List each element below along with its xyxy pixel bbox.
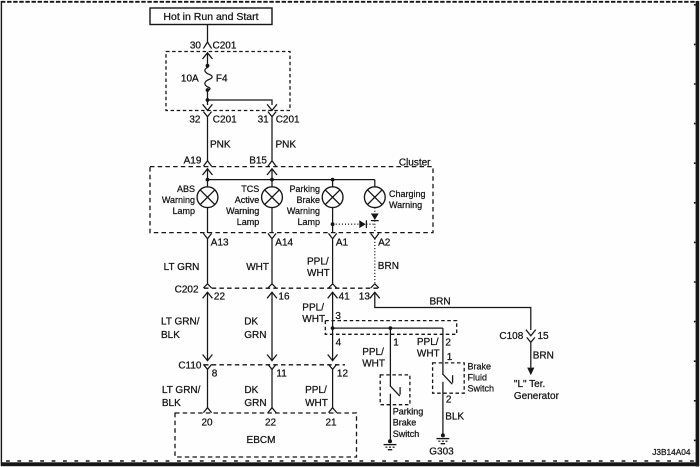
ground G303 xyxy=(429,433,454,457)
svg-text:Brake: Brake xyxy=(393,418,417,428)
svg-text:"L" Ter.: "L" Ter. xyxy=(514,379,545,390)
svg-text:EBCM: EBCM xyxy=(247,435,276,446)
svg-text:PNK: PNK xyxy=(210,140,231,151)
svg-text:20: 20 xyxy=(201,418,213,429)
svg-text:Active: Active xyxy=(235,195,260,205)
wire BRN (A2, dotted) xyxy=(374,239,376,284)
svg-text:10A: 10A xyxy=(181,74,199,85)
svg-text:Brake: Brake xyxy=(296,195,320,205)
svg-text:LT GRN/: LT GRN/ xyxy=(162,385,201,396)
svg-text:4: 4 xyxy=(336,337,342,348)
svg-text:B15: B15 xyxy=(249,156,267,167)
lamp feed bus xyxy=(208,179,375,181)
svg-text:LT GRN: LT GRN xyxy=(164,262,200,273)
node at Parking lamp xyxy=(331,178,335,182)
svg-text:F4: F4 xyxy=(216,74,228,85)
svg-text:Parking: Parking xyxy=(393,407,424,417)
cluster pin A1 (fork below) xyxy=(329,233,349,248)
wire LT GRN xyxy=(207,239,209,284)
wire fuse to pin 32 xyxy=(207,90,209,105)
Charging warning lamp xyxy=(364,180,425,210)
node on parking lamp wire xyxy=(331,222,335,226)
node at ABS lamp xyxy=(206,178,210,182)
svg-text:Switch: Switch xyxy=(393,429,420,439)
svg-text:C201: C201 xyxy=(276,114,300,125)
fuse F4 xyxy=(205,68,212,91)
svg-text:BLK: BLK xyxy=(445,412,464,423)
node: fuse output branch xyxy=(206,98,210,102)
svg-text:2: 2 xyxy=(445,337,451,348)
svg-text:Warning: Warning xyxy=(162,195,195,205)
svg-text:TCS: TCS xyxy=(241,184,259,194)
svg-text:BRN: BRN xyxy=(429,297,450,308)
two-line wire labels between C202 and C110 xyxy=(161,317,200,342)
connector C201 pin 32 (fork below box) xyxy=(189,112,237,126)
svg-text:Switch: Switch xyxy=(468,384,495,394)
brake fluid switch box xyxy=(433,362,494,394)
svg-text:DK: DK xyxy=(244,385,258,396)
svg-text:A13: A13 xyxy=(211,238,229,249)
node splice left xyxy=(331,326,335,330)
arrow down at pin 32 xyxy=(203,104,213,110)
wire PNK right xyxy=(271,117,273,161)
svg-text:A19: A19 xyxy=(184,156,202,167)
svg-text:Warning: Warning xyxy=(389,200,422,210)
svg-text:Fluid: Fluid xyxy=(468,373,488,383)
svg-text:WHT: WHT xyxy=(302,314,325,325)
svg-text:Brake: Brake xyxy=(468,362,492,372)
connector C108 xyxy=(499,330,549,343)
svg-text:C108: C108 xyxy=(499,331,523,342)
svg-text:BLK: BLK xyxy=(162,398,181,409)
EBCM pin 22 fork xyxy=(265,408,277,429)
svg-text:C110: C110 xyxy=(178,360,202,371)
svg-text:PPL/: PPL/ xyxy=(307,256,329,267)
svg-text:31: 31 xyxy=(258,114,270,125)
svg-text:Generator: Generator xyxy=(514,391,560,402)
diode (horizontal) between parking lamp wire and charging wire xyxy=(333,220,375,228)
wire parking switch to ground xyxy=(389,405,391,440)
terminal arrow to generator xyxy=(527,368,534,376)
svg-text:WHT: WHT xyxy=(417,349,440,360)
svg-text:21: 21 xyxy=(325,418,337,429)
svg-text:GRN: GRN xyxy=(244,398,266,409)
svg-text:C201: C201 xyxy=(213,41,237,52)
cluster pin A13 (fork below) xyxy=(203,233,229,248)
junction dot below fuse xyxy=(206,88,210,92)
svg-text:WHT: WHT xyxy=(246,262,269,273)
svg-text:16: 16 xyxy=(278,291,290,302)
C110 pin 11 arrow/fork xyxy=(267,292,287,379)
svg-text:Warning: Warning xyxy=(287,206,320,216)
svg-text:32: 32 xyxy=(189,114,201,125)
splice box (dashed) xyxy=(325,321,456,335)
wire C202 pin 41 to splice, label 3 xyxy=(333,292,342,328)
EBCM pin 20 fork xyxy=(201,408,213,429)
svg-text:Parking: Parking xyxy=(289,184,320,194)
connector C110 (dashed line) xyxy=(178,360,345,371)
splice bus xyxy=(333,327,443,329)
C202 pin 13 fork/arrow xyxy=(359,284,380,303)
arrow into fuse box at pin 30 xyxy=(203,53,213,59)
svg-text:11: 11 xyxy=(276,368,287,379)
svg-text:G303: G303 xyxy=(429,447,454,458)
connector C202 (dashed line) xyxy=(175,285,379,296)
wire branch to pin 31 xyxy=(208,100,273,105)
fuse box (dashed) xyxy=(166,52,290,111)
connector C201 pin 31 (fork below box) xyxy=(258,112,300,126)
wire BRN to generator xyxy=(531,342,554,368)
svg-text:30: 30 xyxy=(190,41,202,52)
svg-text:C202: C202 xyxy=(175,285,199,296)
BRN wire from C202 pin 13 to C108 xyxy=(375,292,531,330)
svg-text:2: 2 xyxy=(446,395,452,406)
wire WHT xyxy=(271,239,273,284)
arrow down at pin 31 xyxy=(267,104,277,110)
svg-text:Lamp: Lamp xyxy=(237,217,260,227)
svg-text:22: 22 xyxy=(214,291,226,302)
svg-text:WHT: WHT xyxy=(307,268,330,279)
TCS active warning lamp xyxy=(226,180,282,233)
svg-text:41: 41 xyxy=(339,291,351,302)
svg-text:1: 1 xyxy=(447,352,453,363)
svg-text:LT GRN/: LT GRN/ xyxy=(161,317,200,328)
svg-text:Lamp: Lamp xyxy=(172,206,195,216)
ground (parking brake switch) xyxy=(384,439,397,449)
EBCM box (dashed) xyxy=(175,413,357,457)
svg-text:8: 8 xyxy=(212,368,218,379)
EBCM pin 21 fork xyxy=(325,408,337,429)
svg-text:WHT: WHT xyxy=(362,358,385,369)
svg-text:A1: A1 xyxy=(336,238,349,249)
wire PNK left xyxy=(207,117,209,161)
svg-text:PPL/: PPL/ xyxy=(302,302,324,313)
wire BLK to G303 xyxy=(443,393,465,434)
cluster pin B15 (fork) xyxy=(249,156,276,167)
wire splice to C110 pin 12, label 4 xyxy=(333,328,342,361)
svg-text:BRN: BRN xyxy=(378,261,399,272)
cluster pin A14 (fork below) xyxy=(268,233,294,248)
svg-text:13: 13 xyxy=(359,291,371,302)
C202 pin 22 fork/arrow xyxy=(203,284,226,303)
diode (vertical) below charging lamp xyxy=(371,208,379,233)
svg-text:Lamp: Lamp xyxy=(297,217,320,227)
svg-text:DK: DK xyxy=(244,317,258,328)
svg-text:15: 15 xyxy=(538,331,550,342)
svg-text:BRN: BRN xyxy=(533,351,554,362)
svg-text:C201: C201 xyxy=(213,114,237,125)
wire PPL/WHT (A1) xyxy=(332,239,334,284)
junction dot above fuse xyxy=(206,64,210,68)
svg-text:Charging: Charging xyxy=(389,189,426,199)
connector C201 pin 30 (fork) xyxy=(190,41,237,52)
svg-text:BLK: BLK xyxy=(161,330,180,341)
svg-text:22: 22 xyxy=(265,418,277,429)
svg-text:Hot in Run and Start: Hot in Run and Start xyxy=(163,11,258,23)
svg-text:ABS: ABS xyxy=(177,184,195,194)
svg-text:PNK: PNK xyxy=(276,140,297,151)
svg-text:A2: A2 xyxy=(378,238,391,249)
Cluster box (dashed) xyxy=(150,158,433,233)
svg-text:PPL/: PPL/ xyxy=(417,337,439,348)
C202 pin 16 fork/arrow xyxy=(267,284,290,303)
svg-text:WHT: WHT xyxy=(305,398,328,409)
wire splice to parking brake switch, label 1 xyxy=(362,328,399,375)
svg-text:12: 12 xyxy=(337,368,349,379)
svg-text:PPL/: PPL/ xyxy=(305,385,327,396)
parking brake switch box xyxy=(380,375,423,439)
C110 pin 8 arrow/fork xyxy=(203,292,218,379)
wire to fuse F4 xyxy=(207,53,209,68)
node at TCS lamp xyxy=(270,178,274,182)
svg-text:J3B14A04: J3B14A04 xyxy=(652,447,691,457)
svg-text:Cluster: Cluster xyxy=(399,158,431,169)
arrow into cluster at B15 xyxy=(267,169,277,175)
wire splice to brake fluid switch, label 2 xyxy=(417,328,453,363)
wires C110 to EBCM with labels xyxy=(162,369,208,409)
C202 pin 41 fork/arrow xyxy=(328,284,350,303)
node splice mid xyxy=(389,326,393,330)
cluster pin A2 (fork below) xyxy=(371,233,391,248)
Parking brake warning lamp xyxy=(287,180,343,233)
Hot in Run and Start box xyxy=(150,8,272,25)
svg-text:A14: A14 xyxy=(275,238,293,249)
ABS warning lamp xyxy=(162,180,218,233)
svg-text:GRN: GRN xyxy=(244,330,266,341)
svg-text:PPL/: PPL/ xyxy=(362,347,384,358)
svg-text:1: 1 xyxy=(393,337,399,348)
C110 pin 12 arrow/fork xyxy=(328,355,349,380)
svg-text:Warning: Warning xyxy=(226,206,259,216)
cluster pin A19 (fork) xyxy=(184,156,212,167)
wire from hot box to C201 pin 30 xyxy=(207,25,209,43)
label "L" Ter. Generator xyxy=(514,379,560,402)
arrow into cluster at A19 xyxy=(203,169,213,175)
